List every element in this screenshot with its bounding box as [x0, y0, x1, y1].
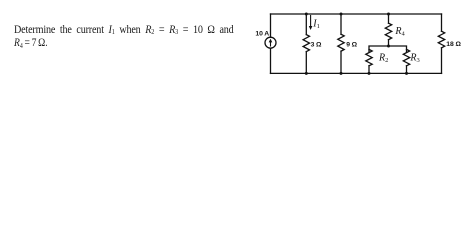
- wire bottom: [271, 72, 442, 74]
- node dot bottom 9ohm: [340, 72, 343, 75]
- svg-text:R2: R2: [378, 53, 388, 65]
- node dot bottom R3: [405, 72, 408, 75]
- node dot bottom 3ohm: [305, 72, 308, 75]
- svg-text:10 A: 10 A: [255, 31, 269, 38]
- resistor R3 branch: [403, 49, 409, 73]
- wire sub-top (R2/R3 parallel top rail): [369, 46, 407, 52]
- svg-text:I1: I1: [312, 19, 320, 31]
- resistor 9 ohm branch: [338, 14, 344, 73]
- node dot mid R4/parallel: [387, 45, 390, 48]
- wire top: [271, 13, 442, 15]
- svg-text:9 Ω: 9 Ω: [346, 42, 357, 49]
- svg-text:3 Ω: 3 Ω: [311, 41, 322, 48]
- wire left-bottom (source to bottom-left corner): [270, 48, 272, 73]
- node dot top 9ohm: [340, 13, 343, 16]
- resistor R4 branch: [385, 14, 391, 46]
- svg-text:R4: R4: [394, 26, 405, 38]
- current arrow I1: [309, 16, 313, 31]
- node dot top R4: [387, 13, 390, 16]
- resistor 3 ohm branch: [303, 14, 309, 73]
- problem statement text line 1: [14, 25, 234, 36]
- node dot bottom R2: [368, 72, 371, 75]
- node dot top 3ohm: [305, 13, 308, 16]
- problem statement text line 2: [14, 38, 48, 49]
- resistor R2 branch: [366, 49, 372, 73]
- wire left-top (source to top-left corner): [270, 14, 272, 37]
- resistor 18 ohm branch (right edge): [438, 14, 444, 73]
- current source 10A (circle with up arrow): [265, 37, 276, 48]
- svg-text:R3: R3: [409, 53, 419, 65]
- svg-text:18 Ω: 18 Ω: [446, 41, 461, 48]
